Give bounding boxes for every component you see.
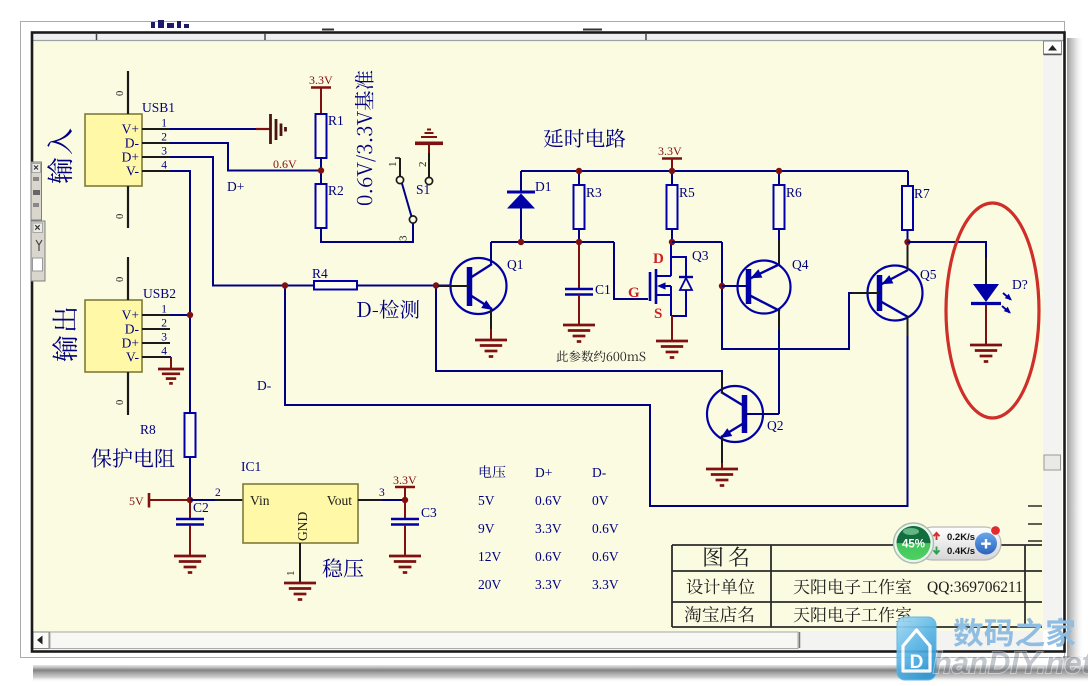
transistor Q1	[438, 242, 507, 329]
floating toolbar fragment 1	[31, 162, 42, 220]
junction D- node at R4	[282, 282, 288, 288]
svg-text:9V: 9V	[478, 521, 495, 536]
title 天阳电子工作室 (2)	[794, 607, 912, 623]
wire LED cathode	[985, 305, 987, 345]
text 延时电路 (delay circuit)	[544, 129, 626, 148]
watermark 数码之家 hanDIY.net	[897, 617, 1088, 680]
resistor R7	[902, 186, 913, 230]
svg-text:R3: R3	[586, 185, 602, 200]
wire R2 bottom to S1 pin3	[321, 224, 413, 243]
ground (Q1 emitter)	[475, 339, 507, 342]
svg-text:3: 3	[161, 146, 167, 158]
junction rail R6	[776, 168, 782, 174]
svg-text:0.6V: 0.6V	[592, 549, 619, 564]
LED D?	[971, 284, 1012, 314]
svg-text:R2: R2	[328, 183, 344, 198]
resistor R5	[667, 185, 678, 229]
earth ground above S1	[415, 130, 443, 146]
junction 3.3V out	[402, 497, 408, 503]
svg-text:C2: C2	[193, 500, 209, 515]
svg-text:0.6V: 0.6V	[535, 549, 562, 564]
network speed badge 45%	[894, 523, 1002, 563]
svg-text:5V: 5V	[478, 493, 495, 508]
svg-text:D-: D-	[125, 136, 140, 151]
ground (USB1 pin1, sideways)	[271, 114, 286, 144]
svg-text:2: 2	[215, 487, 221, 499]
svg-text:USB1: USB1	[142, 100, 175, 115]
connector USB2	[85, 257, 170, 415]
svg-text:0.6V: 0.6V	[535, 493, 562, 508]
svg-text:IC1: IC1	[241, 459, 261, 474]
svg-text:R5: R5	[679, 185, 695, 200]
svg-text:3.3V: 3.3V	[535, 577, 562, 592]
svg-text:1: 1	[161, 304, 167, 316]
svg-text:G: G	[628, 285, 640, 301]
svg-text:C3: C3	[421, 505, 437, 520]
wire R3 bottom	[578, 229, 580, 242]
resistor R2	[316, 184, 327, 228]
svg-text:S: S	[654, 306, 662, 322]
wire IC1 pin2	[190, 499, 215, 501]
text 输出 (output)	[52, 308, 77, 361]
wire R1-R2	[320, 158, 322, 184]
wire USB1 pin4 down to R8 and 5V node	[170, 171, 190, 413]
wire Q3 source to ground	[671, 316, 673, 341]
wire 3.3V rail	[521, 170, 908, 172]
wire drain node to Q4/Q5	[672, 241, 722, 243]
ground (C2)	[174, 555, 206, 558]
svg-text:0.4K/s: 0.4K/s	[947, 546, 975, 557]
svg-text:45%: 45%	[902, 539, 925, 551]
floating toolbar fragment 2	[31, 221, 45, 281]
diode D1	[507, 192, 535, 242]
svg-text:0: 0	[115, 91, 126, 96]
svg-text:D-: D-	[125, 322, 140, 337]
svg-text:0V: 0V	[592, 493, 609, 508]
svg-text:4: 4	[161, 160, 167, 172]
svg-text:0: 0	[115, 277, 126, 282]
wire USB1 pin3 / D- net	[170, 157, 314, 286]
svg-text:0.6V: 0.6V	[273, 157, 297, 171]
title block	[672, 506, 1042, 627]
svg-text:D+: D+	[122, 150, 139, 165]
wire Q4 base	[722, 285, 748, 287]
power 3.3V (rail)	[658, 144, 682, 171]
svg-text:20V: 20V	[478, 577, 502, 592]
svg-text:D?: D?	[1012, 277, 1028, 292]
wire IC1 GND pin	[299, 543, 301, 583]
ground (Q3 source)	[656, 340, 688, 343]
capacitor C2	[189, 500, 191, 519]
svg-text:2: 2	[417, 162, 429, 168]
junction D1 bottom	[518, 239, 524, 245]
wire Q4 collector down	[778, 330, 780, 414]
connector USB1	[85, 71, 170, 228]
wire C1 bottom	[578, 295, 580, 326]
resistor R6	[774, 185, 785, 229]
svg-text:2: 2	[161, 318, 167, 330]
svg-text:3: 3	[398, 235, 410, 241]
ground (C1)	[563, 324, 595, 327]
ground (IC1 GND)	[284, 582, 316, 585]
voltage table	[478, 465, 619, 592]
svg-text:R1: R1	[328, 113, 344, 128]
wire USB1 pin2 to 0.6V node	[170, 143, 318, 171]
wire D- net down to Q5 collector	[285, 286, 908, 507]
junction R3/C1	[576, 239, 582, 245]
horizontal scrollbar	[32, 631, 1043, 650]
title 图名	[704, 547, 748, 567]
junction rail R3	[576, 168, 582, 174]
transistor Q2	[707, 373, 763, 463]
text 稳压 (regulator)	[323, 558, 364, 577]
svg-text:0: 0	[115, 400, 126, 405]
junction R7/Q5/LED	[904, 239, 910, 245]
text 0.6V/3.3V基准 (rotated)	[355, 71, 376, 205]
power 3.3V (IC1 out)	[393, 473, 417, 500]
svg-text:S1: S1	[416, 182, 430, 197]
svg-text:5V: 5V	[129, 494, 144, 508]
svg-text:R6: R6	[786, 185, 802, 200]
svg-text:D: D	[653, 251, 664, 267]
text 此参数约600mS	[556, 351, 645, 362]
svg-text:R4: R4	[312, 266, 328, 281]
wire R6 to Q4 emitter	[778, 229, 780, 242]
svg-text:1: 1	[387, 162, 399, 168]
svg-text:GND: GND	[295, 512, 310, 541]
ground (Q2 emitter)	[706, 468, 738, 471]
svg-text:3.3V: 3.3V	[535, 521, 562, 536]
svg-text:3.3V: 3.3V	[393, 473, 417, 487]
junction Q1 base node	[433, 282, 439, 288]
title 天阳电子工作室	[794, 579, 912, 595]
svg-text:D+: D+	[227, 179, 244, 194]
svg-text:hanDIY.net: hanDIY.net	[933, 645, 1088, 680]
svg-text:D: D	[910, 652, 924, 673]
wire IC1 pin3	[358, 499, 382, 501]
capacitor C1	[565, 288, 593, 291]
svg-text:4: 4	[161, 346, 167, 358]
resistor R8	[185, 413, 196, 457]
svg-text:Vin: Vin	[250, 493, 270, 508]
wire Q2 emitter to ground	[721, 463, 723, 469]
svg-text:1: 1	[285, 571, 297, 577]
text D-检测	[357, 300, 419, 319]
switch S1	[387, 158, 433, 241]
svg-text:Q1: Q1	[507, 257, 524, 272]
title 淘宝店名	[685, 606, 754, 622]
svg-text:D-: D-	[592, 465, 607, 480]
svg-text:0: 0	[115, 214, 126, 219]
svg-text:V-: V-	[126, 350, 140, 365]
svg-text:USB2: USB2	[143, 286, 176, 301]
svg-text:QQ:369706211: QQ:369706211	[927, 579, 1023, 596]
wire Q1 collector rail y242	[491, 241, 614, 243]
wire C1 top (dark)	[578, 242, 580, 289]
wire USB1 pin1 to ground	[170, 128, 256, 130]
wire Q1 base branch to Q2 collector	[436, 286, 722, 392]
junction Q4 base	[719, 283, 725, 289]
svg-text:3.3V: 3.3V	[592, 577, 619, 592]
mosfet Q3	[650, 242, 693, 316]
svg-text:Vout: Vout	[327, 493, 353, 508]
power 5V	[129, 493, 190, 508]
svg-text:1: 1	[161, 118, 167, 130]
ground (USB2 pin4)	[158, 368, 184, 371]
svg-text:V+: V+	[122, 308, 139, 323]
text 输入 (input)	[47, 129, 72, 184]
svg-text:0.6V: 0.6V	[592, 521, 619, 536]
svg-text:Q5: Q5	[920, 267, 937, 282]
wire to LED	[908, 242, 987, 284]
svg-text:V-: V-	[126, 164, 140, 179]
junction 5V node	[187, 497, 193, 503]
junction 0.6V node	[318, 167, 324, 173]
svg-text:V+: V+	[122, 122, 139, 137]
wire Q2 base	[744, 413, 779, 415]
text 保护电阻 (protection resistor)	[92, 448, 175, 467]
wire R5 bottom / drain node	[671, 229, 673, 242]
wire gate drop	[614, 242, 648, 299]
svg-text:Q3: Q3	[692, 248, 709, 263]
red circle annotation	[946, 203, 1039, 418]
svg-text:Q4: Q4	[792, 257, 809, 272]
svg-text:R8: R8	[140, 422, 156, 437]
vertical scrollbar	[1043, 41, 1062, 630]
svg-text:3: 3	[379, 487, 385, 499]
svg-text:C1: C1	[595, 282, 611, 297]
ground (LED)	[970, 344, 1002, 347]
title 设计单位	[687, 579, 755, 595]
junction drain node	[669, 239, 675, 245]
junction rail 3.3V	[669, 168, 675, 174]
svg-text:0.2K/s: 0.2K/s	[947, 532, 975, 543]
resistor R3	[574, 185, 585, 229]
wire USB2 pin4 to ground	[170, 356, 171, 358]
wire USB2 pin1	[170, 314, 190, 316]
wire LED anode pin	[985, 258, 987, 284]
power 3.3V (R1 top)	[309, 73, 333, 114]
svg-text:D+: D+	[535, 465, 552, 480]
junction USB2 V+	[187, 312, 193, 318]
transistor Q5 (PNP)	[852, 242, 923, 336]
svg-text:D-: D-	[257, 378, 272, 393]
resistor R4	[314, 281, 357, 290]
svg-text:D1: D1	[535, 179, 552, 194]
svg-text:D+: D+	[122, 336, 139, 351]
ground (C3)	[389, 555, 421, 558]
svg-text:3.3V: 3.3V	[309, 73, 333, 87]
svg-text:3: 3	[161, 332, 167, 344]
svg-text:Q2: Q2	[767, 418, 784, 433]
regulator IC1	[243, 484, 358, 543]
svg-text:2: 2	[161, 132, 167, 144]
capacitor C3	[404, 500, 406, 519]
wire R7 bottom node	[907, 230, 909, 242]
svg-text:R7: R7	[914, 186, 930, 201]
svg-text:12V: 12V	[478, 549, 502, 564]
transistor Q4 (PNP)	[738, 240, 791, 330]
svg-text:3.3V: 3.3V	[658, 144, 682, 158]
resistor R1	[316, 114, 327, 158]
wire Q1 emitter to ground	[490, 329, 492, 340]
wire S1 pin2 to earth	[428, 145, 430, 153]
